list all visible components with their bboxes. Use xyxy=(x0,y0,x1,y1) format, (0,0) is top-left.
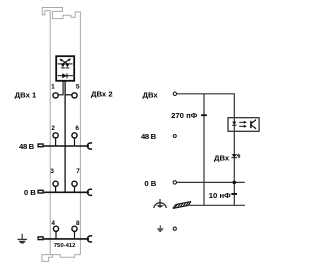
earth jumper contact right xyxy=(87,236,92,242)
LED/electronics box U1 xyxy=(56,56,74,81)
48V jumper contact right xyxy=(87,143,92,149)
wire stub to contact 5 xyxy=(65,94,72,96)
svg-text:0 В: 0 В xyxy=(144,179,156,188)
48V rail wire xyxy=(44,145,89,147)
svg-text:ДВх: ДВх xyxy=(142,90,158,99)
svg-text:270 пФ: 270 пФ xyxy=(171,111,198,120)
contact circle 5 xyxy=(72,93,77,98)
svg-text:0 В: 0 В xyxy=(24,188,36,197)
branch wire for 270pF xyxy=(203,94,205,206)
0V wire xyxy=(177,181,245,183)
input wire to optocoupler branch xyxy=(177,94,235,206)
0V rail wire xyxy=(44,191,89,193)
0V terminal square xyxy=(38,190,43,193)
svg-text:750-412: 750-412 xyxy=(54,243,76,249)
optocoupler internal wire xyxy=(233,118,235,132)
contact circle 7 xyxy=(72,181,77,186)
stem contact 2 to 48V rail xyxy=(55,138,57,146)
stem contact 4 to earth rail xyxy=(55,231,57,239)
svg-text:ДВх: ДВх xyxy=(214,154,230,163)
contact circle 2 xyxy=(53,133,58,138)
svg-text:2: 2 xyxy=(51,125,55,132)
stem contact 6 to 48V rail xyxy=(74,138,76,146)
48V open terminal circle xyxy=(173,135,176,138)
status LED symbol xyxy=(232,154,241,158)
capacitor C1 270пФ plates xyxy=(201,114,207,116)
svg-text:ДВх 1: ДВх 1 xyxy=(15,90,37,99)
svg-text:5: 5 xyxy=(76,84,80,91)
stem contact 3 to 0V rail xyxy=(55,186,57,192)
0V terminal circle xyxy=(173,181,176,184)
input terminal circle xyxy=(173,92,176,95)
chassis / DIN-rail symbol xyxy=(173,202,191,209)
LED symbols (status LEDs) inside box xyxy=(58,59,73,68)
legend: field-supply arrow xyxy=(157,225,163,232)
contact circle 3 xyxy=(53,181,58,186)
clean earth symbol xyxy=(154,199,167,208)
svg-text:7: 7 xyxy=(76,168,80,175)
contact circle 8 xyxy=(72,226,77,231)
capacitor C2 10нФ plates xyxy=(231,193,237,195)
svg-text:3: 3 xyxy=(50,168,54,175)
wire lead from box through contact 5 stub down to 0V rail xyxy=(64,81,66,192)
optocoupler U2 box xyxy=(228,118,259,132)
functional earth bus wire xyxy=(190,204,245,206)
svg-text:48 В: 48 В xyxy=(19,142,35,151)
svg-text:6: 6 xyxy=(75,125,79,132)
earth terminal square xyxy=(38,237,43,240)
optocoupler light arrows xyxy=(239,121,247,128)
svg-text:8: 8 xyxy=(76,220,80,227)
svg-text:ДВх 2: ДВх 2 xyxy=(91,89,113,98)
stem contact 7 to 0V rail xyxy=(74,186,76,192)
48V terminal square xyxy=(38,144,43,147)
wire lead from box to contact 1 xyxy=(58,81,63,95)
module housing outline 750-412 xyxy=(42,8,81,262)
contact circle 6 xyxy=(72,133,77,138)
contact circle 1 xyxy=(53,93,58,98)
stem contact 8 to earth rail xyxy=(74,231,76,239)
legend: contact circle xyxy=(173,227,176,230)
contact circle 4 xyxy=(53,226,58,231)
svg-text:1: 1 xyxy=(51,84,55,91)
earth rail wire xyxy=(44,238,89,240)
junction node xyxy=(233,181,237,185)
svg-text:10 нФ: 10 нФ xyxy=(209,191,231,200)
optocoupler phototransistor xyxy=(251,119,256,129)
optocoupler LED xyxy=(232,122,236,126)
earth symbol left xyxy=(17,234,27,244)
svg-text:48 В: 48 В xyxy=(141,132,157,141)
diode symbol inside box xyxy=(58,73,73,78)
0V jumper contact right xyxy=(87,189,92,195)
